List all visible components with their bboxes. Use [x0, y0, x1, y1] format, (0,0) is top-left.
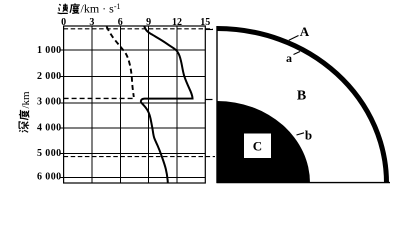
度 glyph — [70, 3, 80, 13]
svg-text:6 000: 6 000 — [37, 172, 62, 183]
y-axis depth labels — [37, 45, 62, 182]
svg-text:1 000: 1 000 — [37, 45, 62, 56]
y-axis title: 深度/km rotated — [19, 91, 32, 132]
S-wave dashed curve — [107, 27, 134, 98]
core-mantle tick to right panel — [206, 99, 213, 101]
axis title: 速度/km·s-1 — [58, 2, 121, 16]
plot grid vertical lines — [92, 26, 177, 183]
axis tick marks left of frame — [61, 50, 64, 177]
svg-text:5 000: 5 000 — [37, 148, 62, 159]
moho dashed line — [64, 28, 213, 30]
svg-text:A: A — [300, 24, 310, 39]
速 glyph — [58, 4, 68, 14]
leader line b — [297, 133, 305, 135]
x-axis numbers 0 3 6 9 12 15 — [61, 17, 210, 28]
svg-text:4 000: 4 000 — [37, 123, 62, 134]
right panel left edge — [216, 26, 218, 183]
svg-text:3 000: 3 000 — [37, 97, 62, 108]
svg-text:b: b — [305, 128, 312, 143]
svg-text:B: B — [297, 89, 306, 104]
度 glyph — [19, 110, 29, 120]
plot frame — [64, 26, 206, 183]
crust thick arc (layer A) — [217, 29, 387, 184]
core black quarter (C region) — [217, 101, 310, 183]
label C white box — [244, 134, 271, 159]
leader line A — [289, 36, 299, 41]
inner-core dashed line — [64, 156, 215, 158]
core-mantle dashed line — [64, 97, 134, 99]
深 glyph — [19, 122, 29, 133]
right panel bottom edge — [217, 182, 391, 184]
P-wave solid curve — [141, 26, 193, 183]
svg-text:C: C — [253, 139, 262, 154]
plot grid horizontal lines — [64, 50, 206, 177]
leader line a — [294, 52, 301, 55]
svg-text:a: a — [286, 51, 292, 65]
moho tick on right panel edge — [206, 29, 214, 31]
svg-text:/km: /km — [20, 91, 32, 109]
svg-text:2 000: 2 000 — [37, 71, 62, 82]
